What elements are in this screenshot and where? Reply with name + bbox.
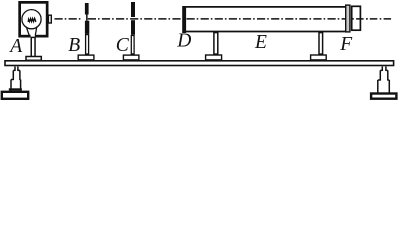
- svg-text:D: D: [176, 30, 191, 51]
- left jack telescoping column: [11, 67, 21, 91]
- tube support post 1: [214, 33, 218, 55]
- svg-text:E: E: [254, 32, 267, 53]
- element C upper bar: [131, 2, 135, 17]
- bulb base white notch in box border: [31, 34, 35, 38]
- optical axis (segment through eyepiece and beyond): [352, 18, 392, 20]
- lamp filament: [28, 18, 36, 22]
- svg-text:B: B: [68, 35, 80, 56]
- lamp stand stem: [31, 37, 35, 56]
- right jack telescoping column: [378, 67, 390, 94]
- element B stand foot: [78, 55, 94, 60]
- bulb outline inside lamp: [22, 10, 41, 29]
- tube flange (grey) at eyepiece end: [346, 5, 350, 32]
- svg-text:C: C: [116, 35, 130, 56]
- svg-text:A: A: [8, 36, 22, 57]
- element C lower bar: [131, 20, 135, 35]
- svg-text:F: F: [339, 34, 353, 55]
- tube support post 2: [319, 33, 323, 55]
- lamp exit window: [48, 15, 51, 23]
- bulb base flare lines: [26, 27, 36, 36]
- bench (optical bench rail): [5, 61, 394, 66]
- optical axis (segment B to objective D): [88, 18, 183, 20]
- tube support post 2 foot: [311, 55, 327, 60]
- optical axis (dash-dot centerline, segment lamp to B): [55, 18, 82, 20]
- element B thin mid section: [86, 15, 88, 21]
- lamp stand foot: [26, 57, 41, 61]
- optical axis (segment inside tube): [187, 18, 346, 20]
- element C stand foot: [123, 55, 138, 60]
- element B upper bar: [85, 3, 89, 15]
- telescope main tube bottom edge: [184, 31, 346, 33]
- element B stand stem: [86, 35, 89, 54]
- objective end plate D of tube: [182, 6, 186, 33]
- tube support post 1 foot: [206, 55, 222, 60]
- lamp housing box A: [20, 2, 48, 36]
- left jack base box: [2, 92, 28, 99]
- right jack base box: [371, 94, 396, 99]
- telescope eyepiece tube F: [352, 6, 361, 30]
- left jack shoulder: [9, 88, 22, 90]
- element B lower bar: [85, 21, 89, 34]
- element C stand stem: [131, 36, 134, 54]
- telescope main tube top edge: [184, 6, 346, 8]
